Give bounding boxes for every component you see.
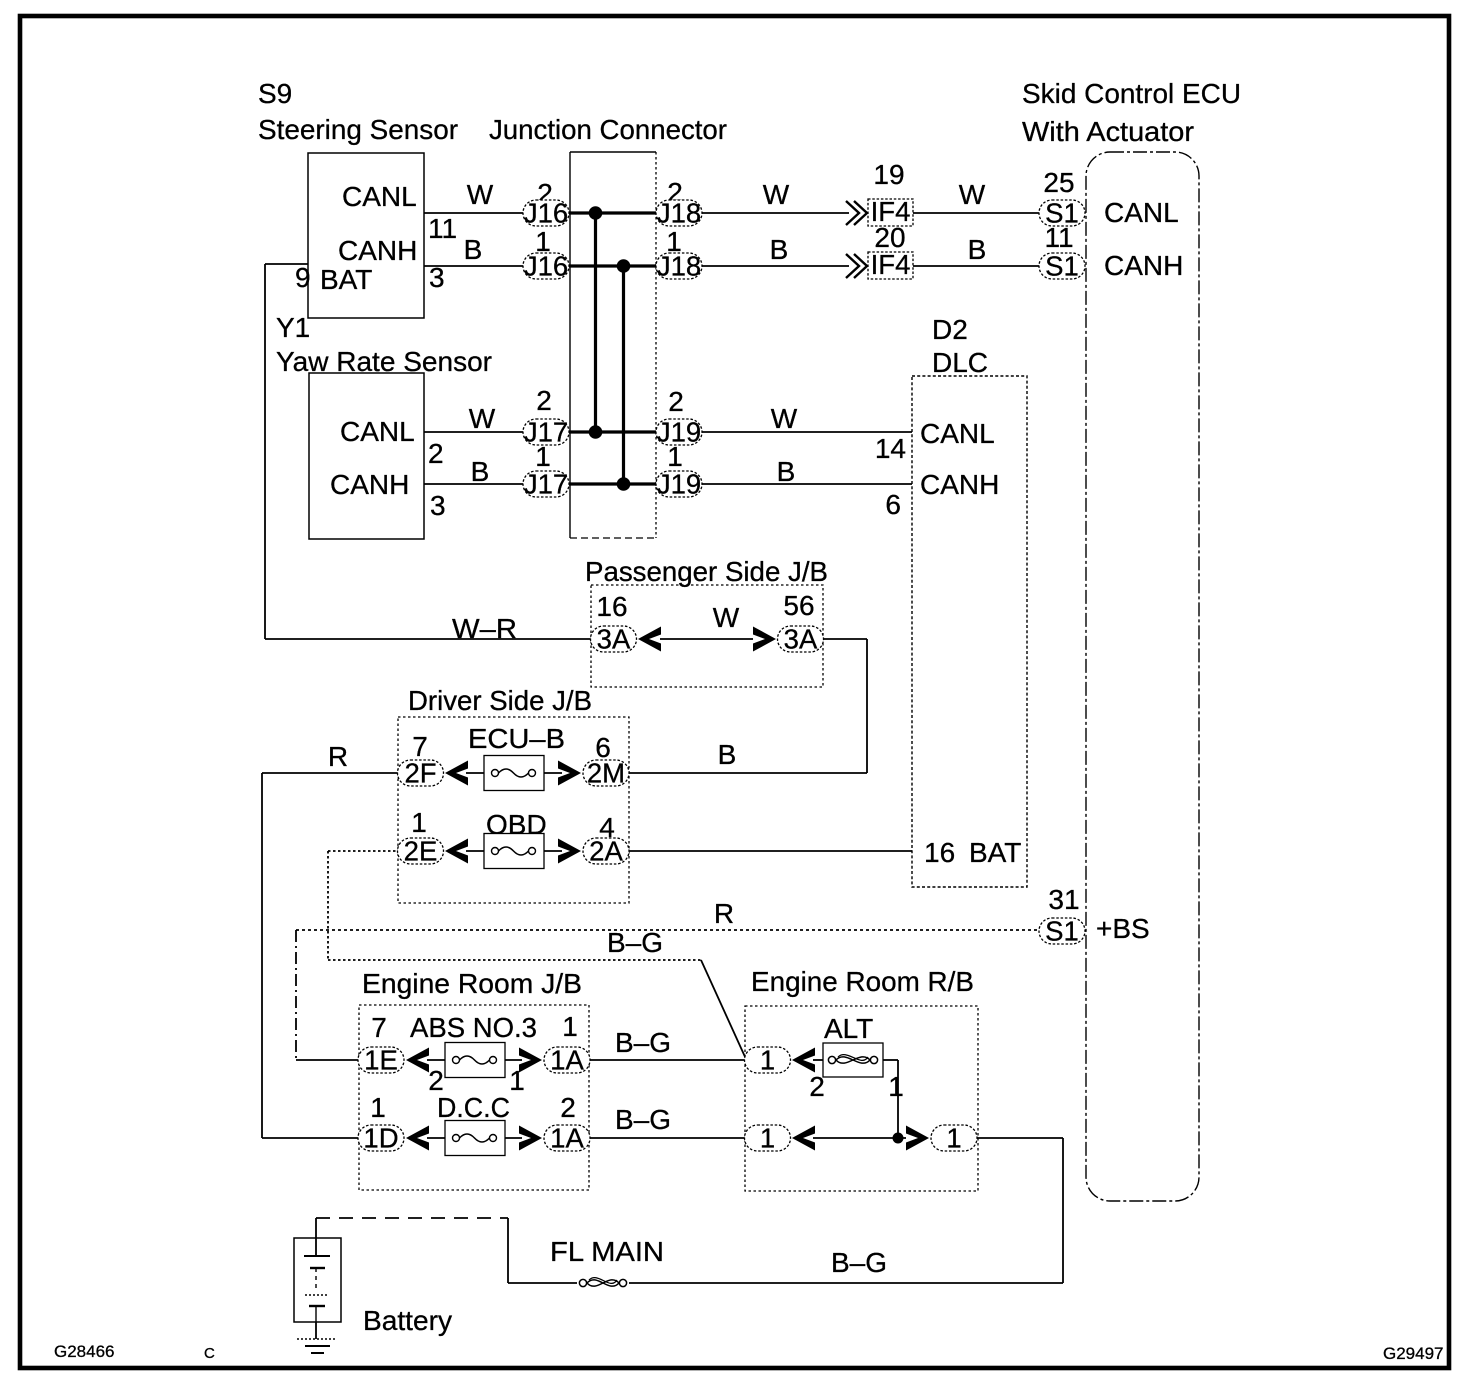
junction node ALT/B-G	[893, 1133, 904, 1144]
connector J16 pin1	[523, 253, 569, 279]
svg-text:B: B	[718, 739, 737, 770]
svg-text:1: 1	[888, 1071, 904, 1102]
svg-text:31: 31	[1048, 884, 1079, 915]
wire J17 to J19 (bold)	[569, 482, 656, 485]
svg-text:J18: J18	[657, 198, 701, 229]
junction connector box	[570, 151, 656, 153]
svg-text:Engine Room J/B: Engine Room J/B	[362, 968, 582, 999]
svg-text:J18: J18	[657, 251, 701, 282]
svg-text:B–G: B–G	[615, 1027, 671, 1058]
svg-text:B: B	[770, 234, 789, 265]
svg-text:Steering Sensor: Steering Sensor	[258, 114, 458, 145]
connector J18 pin2	[656, 200, 702, 226]
svg-text:3A: 3A	[784, 624, 818, 655]
wire J16 to J18 (bold)	[569, 264, 656, 267]
svg-text:CANL: CANL	[340, 416, 415, 447]
svg-text:ABS NO.3: ABS NO.3	[410, 1012, 537, 1043]
wire through D.C.C fuse	[427, 1137, 522, 1139]
svg-text:W: W	[763, 179, 790, 210]
wire B from 2M	[629, 772, 867, 774]
connector S1 pin31	[1039, 918, 1085, 944]
svg-text:J19: J19	[657, 469, 701, 500]
svg-text:B: B	[777, 456, 796, 487]
wire through ECU-B fuse	[466, 772, 562, 774]
connector J19 pin2	[656, 419, 702, 445]
svg-text:1: 1	[946, 1123, 961, 1154]
wire B-G from R/B to FL MAIN	[977, 1137, 1063, 1139]
wire J18 to IF4	[702, 212, 849, 214]
svg-text:FL MAIN: FL MAIN	[550, 1236, 664, 1267]
arrow into IF4 pin20	[854, 254, 867, 278]
arrow right 3A	[753, 627, 776, 652]
wire W-R from S9 BAT pin9	[265, 263, 308, 265]
svg-text:R: R	[714, 898, 734, 929]
arrow left 3A	[638, 627, 661, 652]
wire J16 to J18 (bold)	[569, 211, 656, 214]
svg-text:R: R	[328, 741, 348, 772]
svg-text:1: 1	[411, 807, 427, 838]
svg-text:Passenger Side J/B: Passenger Side J/B	[585, 556, 828, 587]
svg-text:19: 19	[873, 159, 904, 190]
wire battery to FL MAIN	[316, 1217, 508, 1219]
svg-text:1: 1	[370, 1092, 386, 1123]
wire R to 2F	[262, 772, 398, 774]
wire B-G 1A to R/B lower	[590, 1137, 745, 1139]
connector J17 pin1	[523, 471, 569, 497]
svg-text:1: 1	[562, 1011, 578, 1042]
svg-text:9: 9	[295, 262, 311, 293]
wire R to S1 +BS	[296, 929, 1038, 931]
wire J19 to DLC CANH	[702, 483, 912, 485]
svg-text:1: 1	[760, 1045, 775, 1076]
svg-text:D.C.C: D.C.C	[437, 1092, 510, 1123]
svg-text:1: 1	[760, 1123, 775, 1154]
svg-text:14: 14	[875, 433, 906, 464]
arrow left ECU-B	[445, 761, 468, 786]
fusible link FL MAIN	[577, 1271, 629, 1295]
connector 1 (lower left)	[745, 1125, 791, 1151]
svg-text:S1: S1	[1045, 916, 1079, 947]
svg-text:6: 6	[885, 489, 901, 520]
ground (battery)	[315, 1322, 317, 1339]
svg-text:B–G: B–G	[831, 1247, 887, 1278]
yaw rate sensor Y1 box	[309, 373, 424, 539]
connector 2F pin7	[398, 760, 444, 786]
connector J19 pin1	[656, 471, 702, 497]
arrow into IF4 pin19	[854, 201, 867, 225]
svg-text:7: 7	[371, 1012, 387, 1043]
fuse OBD	[484, 834, 544, 869]
fuse ECU-B	[484, 756, 544, 791]
svg-text:DLC: DLC	[932, 347, 988, 378]
svg-text:2M: 2M	[587, 758, 625, 789]
svg-text:1: 1	[667, 441, 683, 472]
connector 2E pin1	[398, 838, 444, 864]
wire FL MAIN row	[508, 1282, 1063, 1284]
arrow right lower	[906, 1126, 929, 1151]
connector 1A pin1	[544, 1047, 590, 1073]
connector 1E pin7	[358, 1047, 404, 1073]
svg-text:W: W	[467, 179, 494, 210]
battery	[315, 1218, 317, 1256]
wire R vertical 2F to 1D	[261, 773, 263, 1138]
DLC D2 box	[912, 376, 1027, 887]
wire through OBD fuse	[466, 850, 562, 852]
svg-text:2: 2	[536, 385, 552, 416]
connector 1 (ALT row)	[745, 1047, 791, 1073]
steering sensor S9 box	[308, 153, 424, 318]
arrow left ABS NO.3	[406, 1048, 429, 1073]
connector S1 pin25	[1039, 200, 1085, 226]
arrow left ALT	[792, 1048, 815, 1073]
junction node B2	[617, 477, 631, 491]
svg-text:2: 2	[809, 1071, 825, 1102]
svg-text:IF4: IF4	[871, 249, 911, 280]
arrow right D.C.C	[519, 1126, 542, 1151]
wire W steering CANL to J16	[424, 212, 523, 214]
connector 2M pin6	[583, 760, 629, 786]
connector 1D pin1	[358, 1125, 404, 1151]
connector S1 pin11	[1039, 253, 1085, 279]
engine room J/B box	[359, 1005, 589, 1190]
arrow left OBD	[445, 839, 468, 864]
svg-text:CANH: CANH	[920, 469, 999, 500]
svg-text:CANL: CANL	[342, 181, 417, 212]
svg-text:1A: 1A	[550, 1123, 584, 1154]
svg-text:11: 11	[1044, 222, 1073, 253]
svg-text:11: 11	[428, 213, 457, 244]
svg-text:J16: J16	[524, 198, 568, 229]
CAN W bus wire (vertical)	[594, 213, 597, 432]
connector 1 (lower right)	[931, 1125, 977, 1151]
svg-text:ALT: ALT	[824, 1013, 873, 1044]
svg-text:ECU–B: ECU–B	[468, 723, 565, 754]
skid control ECU box	[1086, 152, 1199, 1201]
junction node W2	[589, 425, 603, 439]
engine room R/B box	[745, 1006, 978, 1191]
svg-text:BAT: BAT	[969, 837, 1021, 868]
arrow right ECU-B	[558, 761, 581, 786]
connector 3A pin16	[591, 626, 637, 652]
svg-text:J17: J17	[524, 469, 568, 500]
wire IF4 to S1 CANL	[913, 212, 1040, 214]
wire from 2E down to B-G	[328, 850, 398, 852]
wire J17 to J19 (bold)	[569, 430, 656, 433]
svg-text:2: 2	[560, 1092, 576, 1123]
svg-text:B–G: B–G	[607, 927, 663, 958]
connector J17 pin2	[523, 419, 569, 445]
driver side J/B box	[398, 717, 629, 903]
svg-text:W: W	[959, 179, 986, 210]
svg-text:1: 1	[535, 441, 551, 472]
svg-text:With Actuator: With Actuator	[1022, 116, 1194, 147]
svg-text:CANH: CANH	[1104, 250, 1183, 281]
wire B-G from 2E	[327, 851, 329, 960]
wire B yaw CANH to J17	[424, 483, 523, 485]
arrow left D.C.C	[406, 1126, 429, 1151]
svg-text:2E: 2E	[404, 836, 438, 867]
svg-text:3: 3	[430, 490, 446, 521]
svg-text:S9: S9	[258, 78, 292, 109]
wire J19 to DLC CANL	[702, 431, 912, 433]
connector J16 pin2	[523, 200, 569, 226]
wire B-G 1A to R/B	[590, 1059, 745, 1061]
wire R vertical to 1E	[295, 930, 297, 1060]
svg-text:Driver Side J/B: Driver Side J/B	[408, 685, 592, 716]
connector 2A pin4	[583, 838, 629, 864]
wire B steering CANH to J16	[424, 265, 523, 267]
svg-text:B: B	[968, 234, 987, 265]
wire through ABS NO.3 fuse	[427, 1059, 522, 1061]
arrow left lower	[792, 1126, 815, 1151]
svg-text:CANH: CANH	[338, 235, 417, 266]
svg-text:B: B	[471, 456, 490, 487]
svg-text:B: B	[464, 234, 483, 265]
svg-text:1D: 1D	[363, 1123, 398, 1154]
connector 3A pin56	[778, 626, 824, 652]
svg-text:S1: S1	[1045, 251, 1079, 282]
connector J18 pin1	[656, 253, 702, 279]
svg-text:CANH: CANH	[330, 469, 409, 500]
svg-text:D2: D2	[932, 314, 968, 345]
svg-text:Engine Room R/B: Engine Room R/B	[751, 966, 974, 997]
svg-text:1E: 1E	[364, 1045, 398, 1076]
connector IF4 pin20	[868, 252, 913, 279]
svg-text:W: W	[771, 403, 798, 434]
arrow right ABS NO.3	[519, 1048, 542, 1073]
svg-text:C: C	[204, 1345, 215, 1362]
svg-text:Battery: Battery	[363, 1305, 452, 1336]
svg-text:Skid Control ECU: Skid Control ECU	[1022, 78, 1241, 109]
wire J18 to IF4	[702, 265, 849, 267]
svg-text:56: 56	[783, 590, 814, 621]
svg-text:B–G: B–G	[615, 1104, 671, 1135]
svg-text:2: 2	[668, 386, 684, 417]
svg-text:CANL: CANL	[920, 418, 995, 449]
wire 3A-56 to ECU-B B wire	[823, 638, 867, 640]
svg-text:2: 2	[428, 438, 444, 469]
arrow right OBD	[558, 839, 581, 864]
svg-text:25: 25	[1043, 167, 1074, 198]
connector IF4 pin19	[868, 199, 913, 226]
wire W inside passenger J/B	[660, 638, 753, 640]
wire ALT pin1 down	[883, 1059, 898, 1061]
svg-text:G29497: G29497	[1383, 1344, 1444, 1363]
wire to ALT fuse	[813, 1059, 823, 1061]
svg-text:W: W	[713, 602, 740, 633]
wire lower row	[813, 1137, 906, 1139]
svg-text:1A: 1A	[550, 1045, 584, 1076]
junction node B1	[617, 259, 631, 273]
junction node W1	[589, 206, 603, 220]
fusible link ALT	[823, 1043, 883, 1077]
svg-text:Junction Connector: Junction Connector	[489, 114, 727, 145]
wire IF4 to S1 CANH	[913, 265, 1040, 267]
wire W yaw CANL to J17	[424, 431, 523, 433]
fuse D.C.C	[445, 1121, 505, 1156]
svg-text:16: 16	[924, 837, 955, 868]
svg-text:1: 1	[509, 1065, 525, 1096]
svg-text:Y1: Y1	[276, 312, 310, 343]
svg-text:CANL: CANL	[1104, 197, 1179, 228]
svg-text:W: W	[469, 403, 496, 434]
svg-text:J16: J16	[524, 251, 568, 282]
svg-text:16: 16	[596, 591, 627, 622]
passenger side J/B box	[591, 585, 823, 687]
svg-text:+BS: +BS	[1096, 913, 1150, 944]
svg-text:2A: 2A	[589, 836, 623, 867]
svg-text:BAT: BAT	[320, 264, 372, 295]
fuse ABS NO.3	[445, 1043, 505, 1078]
svg-text:G28466: G28466	[54, 1342, 115, 1361]
wire B-G diagonal into R/B	[701, 960, 746, 1059]
svg-text:3A: 3A	[597, 624, 631, 655]
wire 2A to DLC BAT pin16	[629, 850, 912, 852]
svg-text:2F: 2F	[404, 758, 436, 789]
CAN B bus wire (vertical)	[622, 266, 625, 484]
connector 1A pin2	[544, 1125, 590, 1151]
svg-text:W–R: W–R	[452, 613, 517, 644]
